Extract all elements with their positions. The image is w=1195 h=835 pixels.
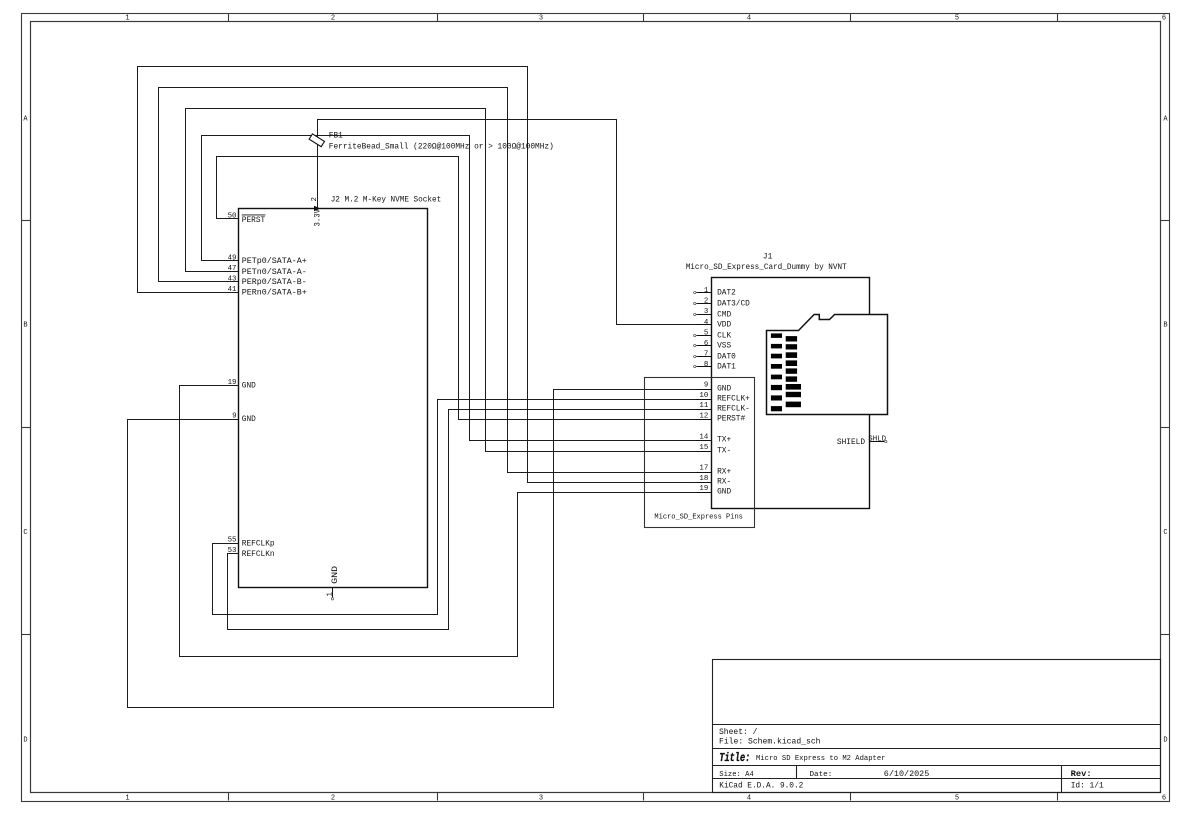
svg-text:53: 53	[228, 547, 237, 555]
J2 pin 2 (3.3V) top arrow and labels	[311, 197, 323, 226]
svg-text:B: B	[1163, 322, 1167, 330]
svg-text:J1: J1	[763, 254, 773, 262]
svg-text:2: 2	[331, 15, 335, 23]
J2 pin 1 (GND) bottom stub	[326, 566, 340, 600]
wire net PETp0: J2 pin49 to J1 pin14 TX+	[202, 136, 696, 441]
svg-text:1: 1	[125, 15, 129, 23]
wire net GND b: J2 pin9 to J1 pin9	[128, 390, 696, 708]
svg-text:3: 3	[539, 795, 543, 803]
micro SD card graphic	[767, 315, 888, 415]
svg-text:DAT0: DAT0	[717, 354, 736, 362]
J1 pin names	[717, 290, 750, 497]
svg-text:PERST: PERST	[242, 217, 266, 225]
svg-text:19: 19	[699, 485, 708, 493]
svg-text:11: 11	[699, 402, 708, 410]
svg-text:TX-: TX-	[717, 448, 731, 456]
svg-text:PERST#: PERST#	[717, 416, 745, 424]
wire net PETn0: J2 pin47 to J1 pin15 TX-	[186, 109, 696, 452]
svg-text:2: 2	[704, 298, 708, 306]
svg-text:J2 M.2 M-Key NVME Socket: J2 M.2 M-Key NVME Socket	[331, 196, 442, 204]
svg-text:17: 17	[699, 464, 708, 472]
svg-text:CMD: CMD	[717, 312, 731, 320]
svg-text:6: 6	[704, 340, 708, 348]
wire net PERn0: J2 pin41 to J1 pin18 RX-	[138, 67, 696, 483]
card pads right column	[786, 336, 801, 407]
J1 SHLD pin	[837, 436, 887, 448]
svg-text:GND: GND	[717, 489, 731, 497]
svg-text:REFCLK+: REFCLK+	[717, 396, 750, 404]
svg-text:3: 3	[539, 15, 543, 23]
svg-text:7: 7	[704, 351, 708, 359]
svg-text:PERp0/SATA-B-: PERp0/SATA-B-	[242, 279, 307, 287]
svg-text:14: 14	[699, 433, 708, 441]
svg-text:B: B	[23, 322, 27, 330]
svg-text:SHLD: SHLD	[868, 436, 886, 444]
svg-text:DAT2: DAT2	[717, 290, 736, 298]
svg-text:8: 8	[704, 361, 708, 369]
svg-text:FerriteBead_Small (220Ω@100MHz: FerriteBead_Small (220Ω@100MHz or > 100Ω…	[329, 142, 554, 151]
svg-text:9: 9	[232, 413, 236, 421]
svg-text:RX+: RX+	[717, 469, 731, 477]
svg-text:5: 5	[955, 795, 959, 803]
J1 pins 9-19 stubs	[696, 390, 712, 493]
J1 pins 1-8 stubs with open ends	[696, 293, 712, 367]
svg-text:18: 18	[699, 475, 708, 483]
connector J1 Micro_SD_Express_Card_Dummy	[686, 254, 870, 509]
svg-text:Size: A4: Size: A4	[719, 771, 754, 779]
card pads left column	[771, 333, 782, 411]
wire net PERST: J2 pin50 to J1 pin12	[217, 157, 696, 420]
svg-text:TX+: TX+	[717, 437, 731, 445]
J1 pin numbers	[699, 287, 708, 493]
annotation box Micro_SD_Express Pins	[645, 378, 755, 528]
svg-text:KiCad E.D.A. 9.0.2: KiCad E.D.A. 9.0.2	[719, 782, 803, 791]
svg-text:4: 4	[747, 795, 751, 803]
svg-text:D: D	[23, 736, 27, 744]
svg-text:D: D	[1163, 736, 1167, 744]
svg-text:43: 43	[228, 275, 237, 283]
svg-text:REFCLKn: REFCLKn	[242, 551, 275, 559]
svg-text:1: 1	[125, 795, 129, 803]
svg-text:Micro_SD_Express Pins: Micro_SD_Express Pins	[654, 513, 743, 521]
svg-text:5: 5	[704, 329, 708, 337]
wire net 3V3: J2 pin2 to FB1 to J1 pin4 VDD	[318, 120, 696, 325]
svg-text:REFCLKp: REFCLKp	[242, 540, 275, 548]
svg-text:DAT3/CD: DAT3/CD	[717, 301, 750, 309]
svg-text:3.3V: 3.3V	[315, 209, 323, 227]
svg-text:VSS: VSS	[717, 343, 731, 351]
svg-text:Sheet: /: Sheet: /	[719, 728, 758, 737]
svg-text:4: 4	[704, 319, 709, 327]
svg-text:DAT1: DAT1	[717, 364, 736, 372]
svg-text:10: 10	[699, 392, 708, 400]
title block (decorative frame)	[713, 660, 1161, 793]
svg-text:C: C	[23, 529, 27, 537]
svg-text:CLK: CLK	[717, 333, 731, 341]
svg-text:2: 2	[311, 197, 319, 201]
ferrite bead FB1	[309, 133, 554, 152]
svg-text:GND: GND	[717, 386, 731, 394]
svg-text:Date:: Date:	[810, 771, 833, 779]
svg-text:4: 4	[747, 15, 751, 23]
svg-text:PERn0/SATA-B+: PERn0/SATA-B+	[242, 290, 307, 298]
svg-text:FB1: FB1	[329, 133, 343, 141]
svg-text:1: 1	[326, 592, 334, 597]
svg-text:6: 6	[1162, 15, 1166, 23]
svg-text:PETp0/SATA-A+: PETp0/SATA-A+	[242, 258, 307, 266]
wire net GND a: J2 pin19 to J1 pin19	[180, 386, 696, 657]
svg-text:15: 15	[699, 444, 708, 452]
svg-text:Title:: Title:	[719, 751, 750, 765]
J2 pin names	[242, 215, 307, 559]
svg-text:Micro_SD_Express_Card_Dummy by: Micro_SD_Express_Card_Dummy by NVNT	[686, 264, 847, 272]
svg-text:12: 12	[699, 413, 708, 421]
svg-text:SHIELD: SHIELD	[837, 439, 865, 447]
svg-text:2: 2	[331, 795, 335, 803]
svg-text:Rev:: Rev:	[1071, 770, 1092, 779]
svg-text:REFCLK-: REFCLK-	[717, 406, 750, 414]
wire net PERp0: J2 pin43 to J1 pin17 RX+	[159, 88, 696, 473]
svg-text:RX-: RX-	[717, 479, 731, 487]
svg-text:50: 50	[228, 212, 237, 220]
svg-text:6: 6	[1162, 795, 1166, 803]
svg-text:Id: 1/1: Id: 1/1	[1071, 782, 1104, 791]
svg-text:19: 19	[228, 379, 237, 387]
svg-text:49: 49	[228, 254, 237, 262]
svg-text:GND: GND	[242, 416, 256, 424]
svg-text:3: 3	[704, 308, 708, 316]
svg-text:6/10/2025: 6/10/2025	[884, 770, 930, 779]
wire net REFCLKp: J2 pin55 to J1 pin10	[213, 400, 696, 615]
svg-text:55: 55	[228, 537, 237, 545]
svg-text:41: 41	[228, 286, 237, 294]
J2 left pin numbers	[228, 212, 237, 555]
svg-text:GND: GND	[242, 382, 256, 390]
svg-text:5: 5	[955, 15, 959, 23]
svg-text:PETn0/SATA-A-: PETn0/SATA-A-	[242, 269, 307, 277]
wire net REFCLKn: J2 pin53 to J1 pin11	[228, 410, 696, 630]
svg-text:1: 1	[704, 287, 709, 295]
svg-text:9: 9	[704, 382, 708, 390]
svg-text:File: Schem.kicad_sch: File: Schem.kicad_sch	[719, 738, 821, 747]
svg-text:47: 47	[228, 265, 237, 273]
svg-text:VDD: VDD	[717, 322, 731, 330]
svg-text:GND: GND	[332, 566, 340, 584]
svg-text:Micro SD Express to M2 Adapter: Micro SD Express to M2 Adapter	[756, 755, 886, 763]
connector J2 M.2 M-Key NVME Socket	[239, 196, 442, 587]
svg-text:C: C	[1163, 529, 1167, 537]
